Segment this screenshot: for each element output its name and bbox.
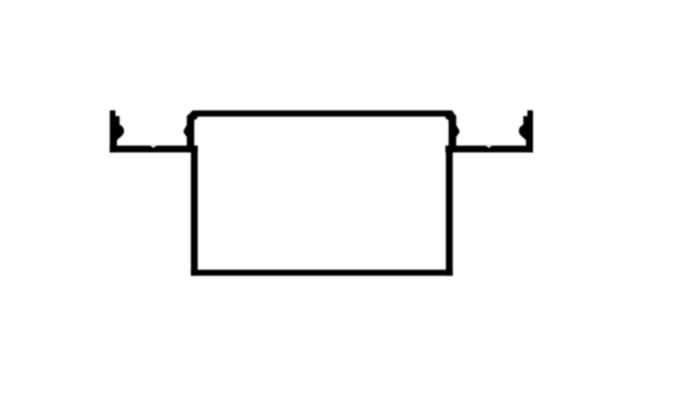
right upper wall with inner ledge and outer barb (445, 116, 459, 147)
left lid chamfer (187, 111, 193, 116)
right junction block (445, 146, 456, 153)
right arm seam notch (486, 145, 493, 148)
left arm seam notch (150, 145, 157, 148)
right end post with detent (519, 110, 533, 152)
left junction block (187, 146, 198, 153)
left upper wall with inner ledge and outer barb (184, 116, 198, 147)
left end post with detent (110, 110, 124, 152)
top lid plate (192, 110, 452, 116)
box bottom plate (191, 270, 453, 276)
right lid chamfer (452, 111, 456, 116)
right box wall (446, 146, 453, 276)
left box wall (191, 146, 198, 276)
right flange arm (449, 146, 533, 153)
left flange arm (110, 146, 194, 153)
